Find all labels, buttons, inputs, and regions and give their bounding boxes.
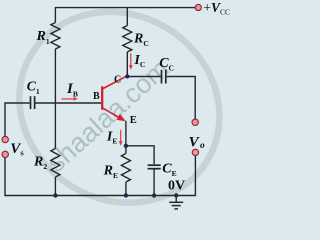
ground bar 1 bbox=[169, 201, 183, 203]
resistor RE bbox=[121, 154, 130, 183]
wire CC to Vo corner bbox=[167, 77, 196, 120]
wire emitter down bbox=[125, 121, 127, 154]
svg-text:B: B bbox=[93, 91, 100, 102]
wire C1 to base bbox=[36, 102, 102, 104]
junction dot rail ground bbox=[174, 193, 178, 197]
wire bottom rail bbox=[5, 195, 196, 197]
resistor R1 bbox=[51, 23, 60, 50]
svg-text:E: E bbox=[130, 115, 137, 126]
wire R2 to rail bbox=[54, 177, 56, 196]
svg-text:C: C bbox=[114, 75, 121, 86]
terminal Vo upper bbox=[192, 119, 198, 125]
svg-text:o: o bbox=[200, 141, 205, 151]
terminal Vs upper bbox=[2, 136, 8, 142]
svg-text:0V: 0V bbox=[168, 178, 185, 193]
emitter lead bbox=[102, 108, 120, 119]
junction dot rail CE bbox=[152, 193, 156, 197]
resistor R2 bbox=[51, 149, 60, 178]
wire left edge upper bbox=[5, 103, 30, 136]
wire Vo lower to rail bbox=[194, 156, 196, 196]
capacitor CC plates bbox=[161, 70, 163, 84]
ground stub bbox=[175, 196, 177, 203]
node E junction dot bbox=[124, 144, 128, 148]
wire RC to node C bbox=[126, 52, 128, 77]
junction dot rail RE bbox=[124, 193, 128, 197]
collector lead bbox=[102, 76, 126, 89]
ground bar 3 bbox=[174, 208, 178, 210]
wire R1 branch top bbox=[54, 7, 56, 23]
capacitor C1 plates bbox=[30, 96, 32, 109]
ground bar 2 bbox=[172, 205, 181, 207]
terminal +VCC bbox=[195, 4, 201, 10]
wire CE branch bbox=[126, 146, 154, 165]
wire RE to rail bbox=[125, 182, 127, 196]
terminal Vs lower bbox=[2, 151, 8, 157]
wire left edge lower bbox=[4, 158, 6, 196]
watermark ring bbox=[0, 0, 255, 240]
terminal Vo lower bbox=[192, 149, 198, 155]
junction dot rail R2 bbox=[53, 193, 57, 197]
wire R1 to R2 bbox=[54, 49, 56, 149]
capacitor CE plates bbox=[148, 164, 161, 166]
wire node C to CC bbox=[127, 76, 160, 78]
transistor Q1 bbox=[102, 76, 126, 118]
current arrow IB bbox=[62, 97, 78, 101]
node C junction dot bbox=[125, 74, 129, 78]
wire RC branch top bbox=[126, 8, 128, 26]
current arrow IE bbox=[119, 130, 123, 146]
current arrow IC bbox=[129, 53, 133, 70]
wire top rail bbox=[55, 7, 195, 9]
emitter arrowhead bbox=[117, 114, 126, 121]
resistor RC bbox=[123, 26, 132, 53]
wire CE to rail bbox=[153, 169, 155, 196]
base bar bbox=[101, 86, 103, 109]
